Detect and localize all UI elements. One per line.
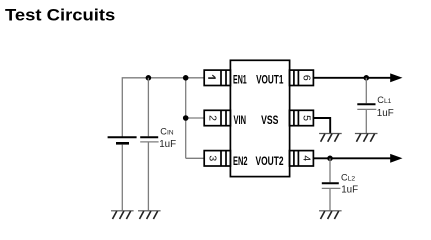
svg-text:CL1: CL1 [377,95,391,105]
svg-text:6: 6 [300,75,312,81]
svg-text:Test Circuits: Test Circuits [5,7,115,25]
svg-text:2: 2 [207,115,219,121]
svg-text:1uF: 1uF [377,108,394,119]
svg-text:VIN: VIN [234,113,247,127]
pin 1 box [204,70,230,85]
svg-text:EN2: EN2 [233,154,248,168]
IC U1 body [230,60,289,176]
pin 5 box [290,110,314,125]
svg-text:VOUT2: VOUT2 [256,154,284,168]
arrow VOUT2 [390,154,402,163]
wire stub pin3 [186,157,205,159]
ground CIN [138,211,161,219]
svg-text:5: 5 [300,115,312,121]
capacitor CIN [140,78,158,211]
pin 6 box [290,70,314,85]
ground battery [111,211,134,219]
wire stub pin2 [186,117,205,119]
capacitor CL2 [322,158,341,210]
svg-text:VSS: VSS [261,113,278,127]
svg-text:1uF: 1uF [341,185,358,196]
wire VSS to ground [313,118,330,133]
svg-text:CL2: CL2 [341,173,355,183]
node junction dot bus top [183,75,189,81]
svg-text:CIN: CIN [160,126,173,136]
wire VOUT1 output row1 [313,77,391,79]
ground VSS [319,134,342,142]
capacitor CL1 [357,78,376,133]
node junction dot bus pin2 [183,115,189,121]
node junction dot CIN [146,75,152,81]
node junction dot CL1 [364,75,370,81]
svg-text:4: 4 [300,155,312,161]
wire input bus vertical [185,78,187,159]
ground CL2 [319,211,342,219]
ground CL1 [355,134,378,142]
pin 2 box [204,110,230,125]
battery B1 [108,137,137,210]
arrow VOUT1 [390,73,402,82]
pin 4 box [290,151,314,166]
node junction dot CL2 [327,156,333,162]
svg-text:1uF: 1uF [159,139,176,150]
svg-text:VOUT1: VOUT1 [256,72,284,86]
wire VOUT2 output row3 [313,157,391,159]
svg-text:EN1: EN1 [233,72,247,86]
pin 3 box [204,151,230,166]
svg-text:3: 3 [207,155,219,161]
wire VIN horizontal row1 left [122,78,204,137]
